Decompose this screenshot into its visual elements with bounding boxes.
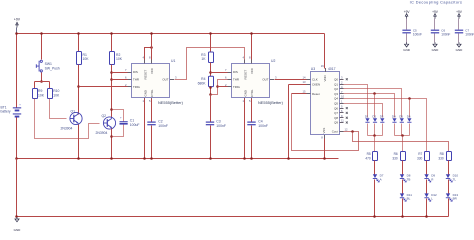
wire Cout to R8: [353, 132, 449, 152]
svg-text:SW1: SW1: [45, 62, 52, 66]
svg-text:14: 14: [303, 75, 306, 79]
junction +9V rail / battery: [15, 32, 18, 35]
svg-text:Q1: Q1: [71, 109, 76, 113]
wire D10 down: [448, 180, 450, 194]
wire D6 to merge: [409, 124, 411, 136]
wire Reset to Cout: [292, 94, 359, 151]
wire merge D1-D3: [368, 135, 383, 137]
wire D7 to bus: [374, 180, 376, 217]
wire D8 down: [402, 180, 404, 194]
svg-text:battery: battery: [1, 109, 11, 113]
wire C6 to GND: [434, 34, 436, 43]
svg-text:4017: 4017: [328, 67, 336, 71]
op-amp U2 NE555 timer: [232, 64, 270, 98]
junction merge group1: [373, 134, 376, 137]
+9V arrow C6: [434, 14, 437, 19]
svg-text:TRIG: TRIG: [133, 85, 141, 89]
+9V arrow: [16, 22, 19, 27]
svg-text:C1: C1: [130, 119, 134, 123]
wire R1 to Q1 collector: [78, 65, 80, 115]
svg-text:U3: U3: [311, 67, 315, 71]
wire bottom GND bus: [17, 216, 449, 218]
ground symbol: [15, 217, 19, 222]
svg-text:680K: 680K: [198, 81, 207, 85]
svg-text:100uF: 100uF: [130, 123, 140, 127]
wire C7 to GND: [458, 34, 460, 43]
svg-text:470: 470: [365, 157, 371, 161]
resistor R3 1K: [209, 52, 214, 63]
svg-text:Q8: Q8: [334, 116, 338, 120]
wire mid rail down to GND bus: [16, 159, 18, 217]
svg-text:330: 330: [438, 157, 444, 161]
wire rail to R2: [111, 34, 113, 52]
svg-text:GND: GND: [403, 48, 411, 52]
svg-text:GND: GND: [432, 48, 440, 52]
svg-text:CTRL: CTRL: [250, 89, 254, 97]
svg-text:Q6: Q6: [334, 106, 338, 110]
wire node to C3: [210, 95, 212, 122]
wire rail corner to U3 VDD: [324, 34, 326, 69]
wire U2 OUT to U3 CLK: [275, 79, 307, 81]
resistor R5 470: [373, 152, 378, 161]
wire U1 OUT to U2 RESET: [175, 48, 245, 80]
junction U1 GND/rail: [143, 157, 146, 160]
resistor R10 10K: [48, 89, 53, 99]
wire U1 RESET bridge: [145, 48, 152, 60]
svg-text:100nF: 100nF: [158, 124, 168, 128]
LED D9: [424, 174, 428, 178]
capacitor C6 plates: [431, 30, 439, 31]
svg-text:U1: U1: [171, 59, 175, 63]
svg-text:2N3904: 2N3904: [61, 127, 73, 131]
junction Q1 emitter/rail: [77, 157, 80, 160]
wire D9 down: [426, 180, 428, 194]
junction rail/U1 VCC: [150, 32, 153, 35]
wire R10 to Q1 base: [50, 99, 67, 119]
svg-text:R6: R6: [394, 152, 398, 156]
svg-text:DIS: DIS: [133, 70, 138, 74]
wire +9V top rail: [17, 33, 325, 35]
wire rail to R3: [210, 34, 212, 53]
svg-text:100nF: 100nF: [216, 124, 226, 128]
capacitor C1 100uF electrolytic: [120, 121, 128, 122]
svg-text:100nF: 100nF: [258, 124, 268, 128]
junction Q3/D2: [373, 92, 376, 95]
diode D2: [373, 118, 377, 122]
wire Q3 to D2: [374, 94, 376, 118]
wire U3 CKEN: [289, 84, 307, 86]
svg-text:330: 330: [417, 157, 423, 161]
svg-text:TB: TB: [407, 177, 411, 181]
wire D3 to merge: [382, 124, 384, 136]
wire rail to U1 VCC: [151, 34, 153, 60]
junction col2/bus: [401, 215, 404, 218]
no-connect X: [346, 112, 348, 114]
resistor R9 10K: [33, 89, 38, 99]
svg-text:Q5: Q5: [334, 102, 338, 106]
wire SW1 to R9/R10 node: [41, 73, 43, 82]
svg-text:GND: GND: [243, 90, 247, 96]
IC U3 4017 decade counter: [311, 72, 340, 135]
wire +9V to C7: [458, 19, 460, 30]
diode D5: [400, 118, 404, 122]
svg-text:BL: BL: [407, 197, 411, 201]
wire Q4 to R7: [344, 99, 427, 152]
wire D1 to merge: [367, 124, 369, 136]
wire C2 to rail: [151, 126, 153, 159]
capacitor C7 plates: [455, 30, 463, 31]
svg-text:OUT: OUT: [262, 78, 268, 82]
junction CKEN/rail: [287, 157, 290, 160]
wire U3 Reset: [292, 93, 307, 95]
svg-text:VDD: VDD: [323, 75, 327, 81]
LED D11: [400, 193, 404, 197]
junction TRIG tap: [77, 85, 80, 88]
svg-text:10K: 10K: [83, 57, 90, 61]
svg-text:C3: C3: [216, 119, 220, 123]
wire Q2 emitter to mid rail: [111, 129, 113, 159]
resistor R2 10K: [110, 52, 115, 65]
svg-text:A: A: [380, 177, 382, 181]
svg-text:IC Decoupling Capacitors: IC Decoupling Capacitors: [410, 1, 463, 5]
ground symbol C7: [457, 42, 461, 47]
svg-text:R7: R7: [418, 152, 422, 156]
no-connect X: [346, 107, 348, 109]
wire Q4 to D6: [409, 99, 411, 118]
junction col3/bus: [425, 215, 428, 218]
wire merge D4-D6: [395, 135, 410, 137]
wire node to U2 THR: [211, 80, 228, 95]
wire D4 to merge: [394, 124, 396, 136]
svg-text:C4: C4: [258, 119, 262, 123]
svg-text:Q2: Q2: [102, 114, 107, 118]
svg-text:12: 12: [345, 127, 348, 131]
svg-text:Q1: Q1: [334, 82, 338, 86]
svg-text:R5: R5: [367, 152, 371, 156]
junction mid rail x17: [15, 157, 18, 160]
junction rail/R1: [77, 32, 80, 35]
wire THR to U1: [112, 79, 128, 81]
wire U2 CTRL to C4: [251, 99, 253, 122]
svg-text:13: 13: [303, 80, 306, 84]
diode D1: [365, 118, 369, 122]
wire +9V to C5: [406, 19, 408, 30]
junction D7/bus: [373, 215, 376, 218]
resistor R6 330: [401, 152, 406, 161]
svg-text:SW_Push: SW_Push: [45, 67, 60, 71]
no-connect X: [346, 117, 348, 119]
wire to C1 top: [112, 110, 124, 122]
battery BT1: [13, 107, 21, 108]
transistor Q2 2N3904: [103, 117, 115, 129]
junction C3/rail: [209, 157, 212, 160]
svg-text:D2: D2: [372, 114, 376, 118]
svg-text:U2: U2: [271, 59, 275, 63]
junction VSS/rail: [323, 157, 326, 160]
junction R4 bottom: [209, 86, 212, 89]
wire D11 to bus: [402, 199, 404, 217]
junction C2/rail: [150, 157, 153, 160]
wire Q3 to D4: [344, 94, 395, 118]
wire to U2 DIS: [211, 72, 228, 74]
junction DIS: [110, 71, 113, 74]
svg-text:R3: R3: [201, 53, 205, 57]
junction C1 bottom tap: [110, 135, 113, 138]
wire +9V stub to rail: [16, 28, 18, 34]
wire rail down to battery +: [16, 34, 18, 108]
svg-text:10K: 10K: [53, 94, 60, 98]
svg-text:D5: D5: [399, 114, 403, 118]
junction SW1/R9/R10: [40, 80, 43, 83]
wire D13 to bus: [448, 199, 450, 217]
no-connect X: [346, 78, 348, 80]
svg-text:TRIG: TRIG: [233, 85, 241, 89]
junction rail/R2: [110, 32, 113, 35]
svg-text:100nF: 100nF: [441, 32, 450, 36]
svg-text:Q2: Q2: [334, 87, 338, 91]
wire CKEN down to rail: [288, 85, 290, 159]
switch SW1 SW_Push: [40, 60, 42, 62]
+9V arrow C5: [405, 14, 408, 19]
capacitor C2 plates: [147, 122, 155, 123]
ground symbol C5: [405, 42, 409, 47]
wire U2 GND to rail: [244, 99, 246, 159]
svg-text:NE555(Better): NE555(Better): [158, 100, 184, 105]
resistor R7 330: [425, 152, 430, 161]
wire to U2 TRIG: [218, 86, 228, 88]
svg-text:Q0: Q0: [334, 78, 338, 82]
no-connect X: [346, 122, 348, 124]
junction merge group2: [401, 134, 404, 137]
wire Q1 to D1: [344, 85, 368, 118]
wire to R9: [34, 82, 36, 89]
junction rail/R3: [209, 32, 212, 35]
svg-text:Q3: Q3: [334, 92, 338, 96]
svg-text:R1: R1: [83, 53, 87, 57]
capacitor C3 plates: [206, 122, 214, 123]
svg-text:D1: D1: [365, 114, 369, 118]
wire C3 to rail: [210, 126, 212, 159]
svg-text:NE555(Better): NE555(Better): [258, 100, 284, 105]
wire C1 bottom: [112, 125, 124, 137]
wire U3 VSS to rail: [324, 139, 326, 159]
diode D3: [380, 118, 384, 122]
capacitor C5 plates: [402, 30, 410, 31]
svg-text:R10: R10: [53, 89, 59, 93]
svg-text:Q4: Q4: [334, 97, 338, 101]
wire battery - to mid rail: [16, 118, 18, 159]
svg-text:GND: GND: [456, 48, 464, 52]
svg-text:THR: THR: [233, 78, 239, 82]
svg-text:100nF: 100nF: [465, 32, 474, 36]
wire R9 to Q2 base: [35, 99, 100, 139]
wire C5 to GND: [406, 34, 408, 43]
wire C4 to rail: [251, 126, 253, 159]
ground symbol C6: [433, 42, 437, 47]
svg-text:Reset: Reset: [312, 92, 320, 96]
wire R3-R4-C3 column: [210, 63, 212, 95]
diode D6: [407, 118, 411, 122]
svg-text:D3: D3: [380, 114, 384, 118]
LED D7: [373, 174, 377, 178]
diode D4: [392, 118, 396, 122]
wire D2 to merge: [374, 124, 376, 136]
wire rail to SW1: [41, 34, 43, 60]
svg-text:+9V: +9V: [14, 17, 21, 21]
svg-text:2N3904: 2N3904: [96, 131, 108, 135]
wire TRIG to U1: [79, 86, 128, 88]
LED D12: [424, 193, 428, 197]
junction rail/SW1: [40, 32, 43, 35]
junction DIS U2: [209, 71, 212, 74]
wire +9V to C6: [434, 19, 436, 30]
wire U1 CTRL to C2: [151, 99, 153, 122]
wire U1 GND to rail: [144, 99, 146, 159]
wire R9-R10 top branch: [35, 81, 50, 83]
capacitor C4 plates: [247, 122, 255, 123]
wire R8 to LED: [448, 161, 450, 175]
junction GND bus x17: [15, 215, 18, 218]
resistor R4 680K: [209, 76, 214, 86]
junction Q4/D6: [408, 97, 411, 100]
wire DIS to U1: [112, 72, 128, 74]
wire mid ground rail: [17, 158, 339, 160]
svg-text:+9V: +9V: [432, 10, 439, 14]
wire merge to R5: [374, 136, 376, 152]
svg-text:D4: D4: [392, 114, 396, 118]
junction Q2 emitter/rail: [110, 157, 113, 160]
wire R7 to LED: [426, 161, 428, 175]
wire to R10: [49, 82, 51, 89]
svg-text:TL: TL: [453, 177, 457, 181]
junction Cout tap: [351, 130, 354, 133]
resistor R1 10K: [77, 52, 82, 65]
wire R2 down DIS/THR column to Q2 collector: [111, 65, 113, 118]
wire R5 to LED: [374, 161, 376, 175]
junction RESET/VCC U1: [150, 46, 153, 49]
svg-text:R4: R4: [201, 77, 205, 81]
transistor Q1 2N3904: [70, 112, 82, 124]
svg-text:RESET: RESET: [143, 70, 147, 80]
svg-text:1K: 1K: [201, 57, 206, 61]
svg-text:DIS: DIS: [233, 70, 238, 74]
junction C1 top tap: [110, 108, 113, 111]
wire Q2 to D5: [344, 89, 402, 118]
svg-text:D6: D6: [407, 114, 411, 118]
LED D13: [446, 193, 450, 197]
wire rail to U2 VCC: [251, 34, 253, 60]
+9V arrow C7: [458, 14, 461, 19]
wire merge to R6: [402, 136, 404, 152]
svg-text:R2: R2: [116, 53, 120, 57]
resistor R8 330: [447, 152, 452, 161]
wire D12 to bus: [426, 199, 428, 217]
LED D10: [446, 174, 450, 178]
svg-text:OUT: OUT: [162, 78, 168, 82]
junction rail/U2 VCC: [250, 32, 253, 35]
svg-text:RESET: RESET: [243, 70, 247, 80]
junction C4/rail: [250, 157, 253, 160]
svg-text:GND: GND: [143, 90, 147, 96]
svg-text:+9V: +9V: [404, 10, 411, 14]
svg-text:R9: R9: [38, 89, 42, 93]
svg-text:+9V: +9V: [456, 10, 463, 14]
svg-text:R8: R8: [440, 152, 444, 156]
svg-text:100nF: 100nF: [413, 32, 422, 36]
wire rail to R1: [78, 34, 80, 52]
junction U2 GND/rail: [243, 157, 246, 160]
svg-text:Cout: Cout: [332, 129, 338, 133]
svg-text:GND: GND: [14, 228, 22, 232]
svg-text:Q7: Q7: [334, 111, 338, 115]
wire Q1 emitter to mid rail: [78, 125, 80, 159]
wire R6 to LED: [402, 161, 404, 175]
svg-text:THR: THR: [133, 78, 139, 82]
svg-text:10K: 10K: [116, 57, 123, 61]
svg-text:CLK: CLK: [312, 78, 318, 82]
svg-text:VCC: VCC: [250, 68, 254, 74]
svg-text:330: 330: [392, 157, 398, 161]
svg-text:10K: 10K: [38, 94, 45, 98]
junction TRIG U2: [216, 85, 219, 88]
wire D5 to merge: [401, 124, 403, 136]
svg-text:VCC: VCC: [150, 68, 154, 74]
svg-text:Q9: Q9: [334, 121, 338, 125]
LED D8: [400, 174, 404, 178]
svg-text:VSS: VSS: [322, 128, 326, 134]
wire Q5 to D3: [344, 104, 383, 118]
svg-text:CTRL: CTRL: [150, 89, 154, 97]
svg-text:C2: C2: [158, 119, 162, 123]
junction R4/C3/THR node: [209, 93, 212, 96]
svg-text:CKEN: CKEN: [312, 82, 320, 86]
svg-text:16: 16: [321, 64, 324, 68]
junction THR: [110, 78, 113, 81]
op-amp U1 NE555 timer: [132, 64, 170, 98]
